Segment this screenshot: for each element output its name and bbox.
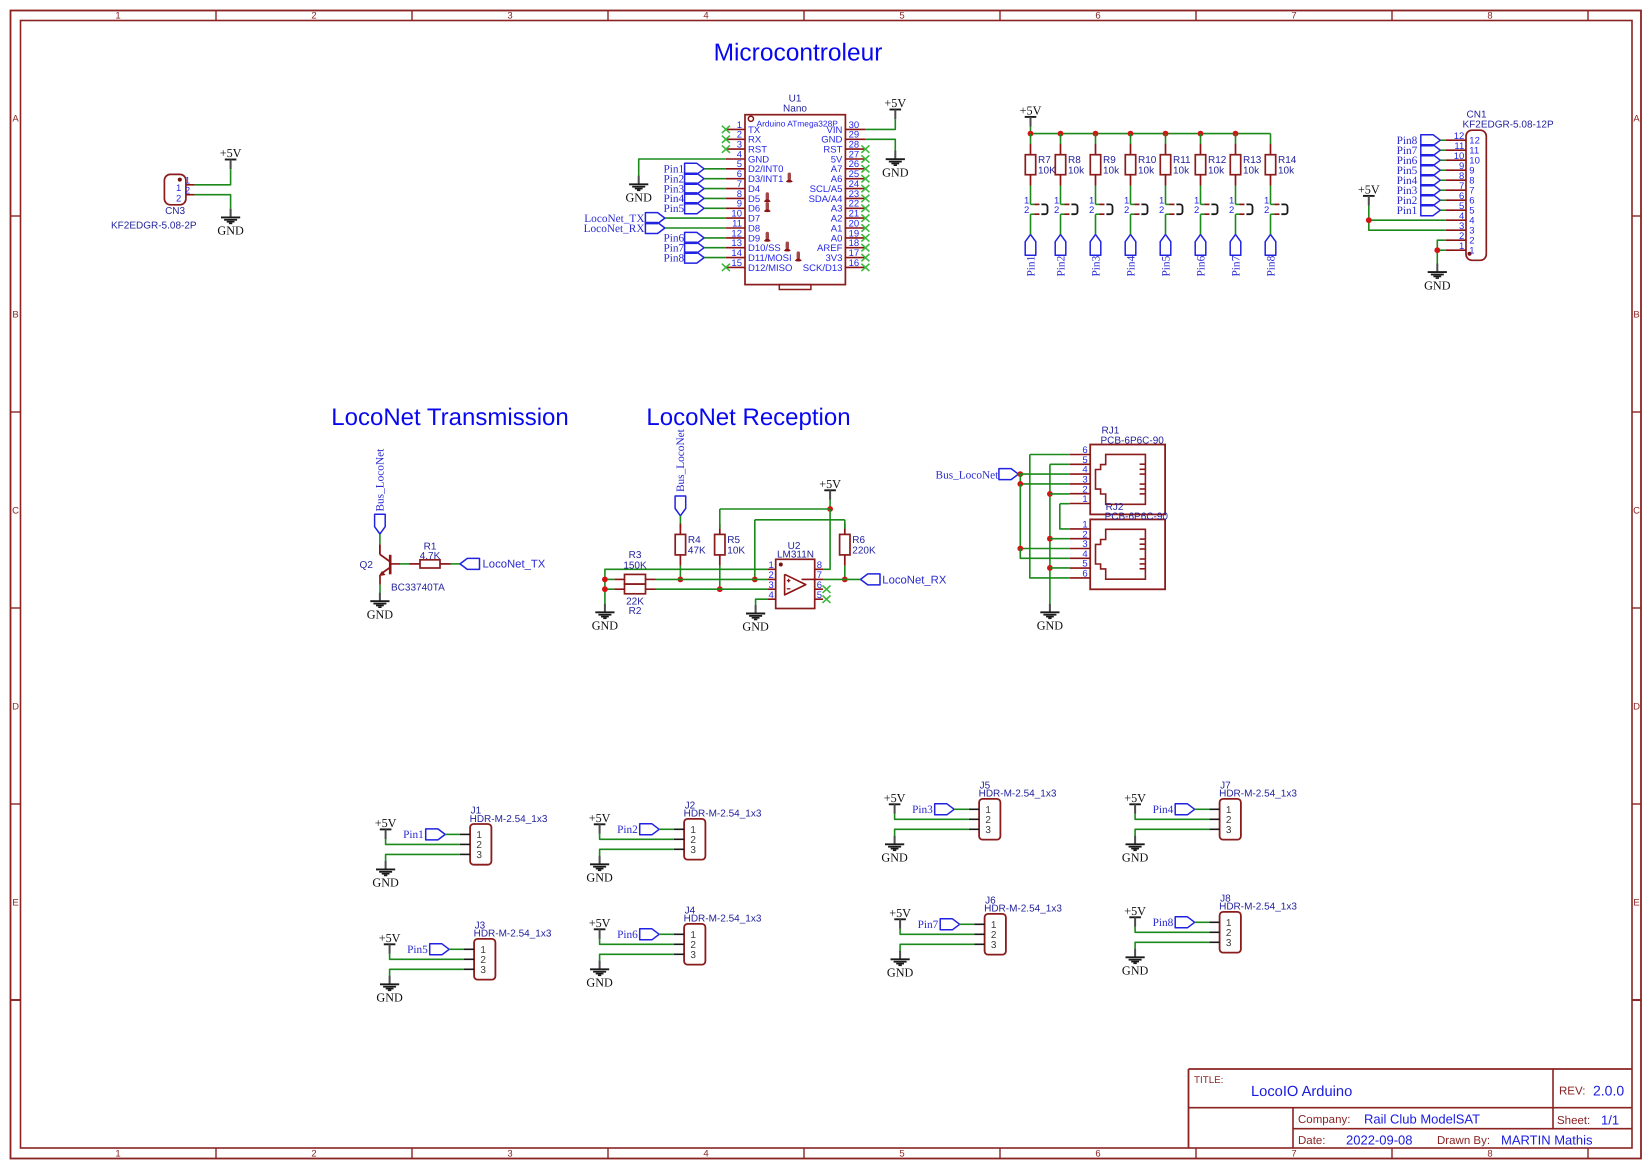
svg-text:HDR-M-2.54_1x3: HDR-M-2.54_1x3: [684, 809, 762, 820]
svg-text:+5V: +5V: [375, 816, 397, 830]
svg-text:6: 6: [1095, 10, 1100, 21]
svg-text:TITLE:: TITLE:: [1194, 1075, 1223, 1086]
svg-text:+5V: +5V: [1358, 182, 1380, 196]
svg-text:GND: GND: [592, 619, 619, 633]
svg-text:R8: R8: [1068, 155, 1081, 166]
svg-text:B: B: [12, 309, 18, 320]
svg-text:2: 2: [311, 10, 316, 21]
svg-text:2.0.0: 2.0.0: [1593, 1083, 1624, 1099]
svg-text:HDR-M-2.54_1x3: HDR-M-2.54_1x3: [1219, 789, 1297, 800]
svg-text:R11: R11: [1173, 155, 1191, 166]
svg-text:Pin3: Pin3: [912, 804, 933, 816]
svg-text:C: C: [1633, 505, 1640, 516]
svg-text:4.7K: 4.7K: [420, 551, 441, 562]
svg-text:PCB-6P6C-90: PCB-6P6C-90: [1101, 436, 1165, 447]
svg-text:10k: 10k: [1068, 166, 1085, 177]
svg-text:6: 6: [1082, 569, 1087, 580]
svg-text:LocoNet_RX: LocoNet_RX: [584, 223, 645, 235]
svg-text:10K: 10K: [1038, 166, 1056, 177]
svg-text:HDR-M-2.54_1x3: HDR-M-2.54_1x3: [984, 904, 1062, 915]
svg-text:GND: GND: [882, 165, 909, 179]
svg-text:R9: R9: [1103, 155, 1116, 166]
svg-text:GND: GND: [742, 620, 769, 634]
svg-text:2: 2: [1229, 205, 1234, 216]
svg-text:8: 8: [1487, 1148, 1492, 1159]
svg-text:D: D: [1633, 701, 1640, 712]
svg-text:LocoNet_RX: LocoNet_RX: [882, 574, 947, 586]
svg-text:GND: GND: [1424, 278, 1451, 292]
svg-text:REV:: REV:: [1559, 1086, 1585, 1098]
svg-text:Pin1: Pin1: [1025, 256, 1037, 277]
svg-text:6: 6: [1095, 1148, 1100, 1159]
svg-text:MARTIN Mathis: MARTIN Mathis: [1501, 1133, 1593, 1148]
svg-text:GND: GND: [376, 991, 403, 1005]
svg-text:2: 2: [1024, 205, 1029, 216]
svg-text:KF2EDGR-5.08-2P: KF2EDGR-5.08-2P: [111, 220, 197, 231]
svg-text:HDR-M-2.54_1x3: HDR-M-2.54_1x3: [1219, 902, 1297, 913]
svg-text:+5V: +5V: [379, 931, 401, 945]
svg-text:HDR-M-2.54_1x3: HDR-M-2.54_1x3: [979, 789, 1057, 800]
svg-text:LM311N: LM311N: [777, 549, 814, 560]
svg-text:+5V: +5V: [884, 791, 906, 805]
svg-text:Company:: Company:: [1298, 1114, 1350, 1126]
svg-text:Pin2: Pin2: [1055, 255, 1067, 276]
svg-text:15: 15: [731, 258, 742, 269]
svg-text:B: B: [1633, 309, 1639, 320]
svg-text:+5V: +5V: [1020, 103, 1042, 117]
svg-text:GND: GND: [887, 966, 914, 980]
svg-text:Bus_LocoNet: Bus_LocoNet: [675, 428, 687, 492]
svg-text:Pin6: Pin6: [1195, 255, 1207, 276]
svg-text:7: 7: [1291, 1148, 1296, 1159]
svg-text:GND: GND: [1122, 964, 1149, 978]
svg-text:R5: R5: [727, 535, 740, 546]
svg-text:R4: R4: [688, 535, 701, 546]
svg-text:Pin6: Pin6: [617, 929, 638, 941]
svg-text:+5V: +5V: [819, 477, 841, 491]
svg-text:R12: R12: [1208, 155, 1227, 166]
svg-text:GND: GND: [625, 191, 652, 205]
svg-text:PCB-6P6C-90: PCB-6P6C-90: [1105, 512, 1169, 523]
svg-text:Date:: Date:: [1298, 1135, 1326, 1147]
svg-text:R7: R7: [1038, 155, 1051, 166]
svg-text:1: 1: [115, 10, 120, 21]
svg-text:10k: 10k: [1173, 166, 1190, 177]
svg-text:BC33740TA: BC33740TA: [391, 582, 445, 593]
svg-text:Pin8: Pin8: [663, 252, 684, 264]
svg-text:E: E: [12, 897, 18, 908]
svg-text:R10: R10: [1138, 155, 1157, 166]
svg-text:1: 1: [1469, 246, 1474, 257]
svg-text:R13: R13: [1243, 155, 1262, 166]
svg-text:Pin1: Pin1: [403, 829, 424, 841]
svg-text:GND: GND: [372, 876, 399, 890]
svg-text:2: 2: [311, 1148, 316, 1159]
svg-text:+5V: +5V: [884, 96, 906, 110]
svg-text:HDR-M-2.54_1x3: HDR-M-2.54_1x3: [684, 914, 762, 925]
svg-text:Pin5: Pin5: [663, 203, 684, 215]
svg-text:3: 3: [507, 10, 512, 21]
svg-text:Pin5: Pin5: [407, 944, 428, 956]
svg-text:3: 3: [480, 965, 486, 976]
svg-text:+5V: +5V: [1124, 791, 1146, 805]
svg-text:2: 2: [1264, 205, 1269, 216]
svg-text:C: C: [12, 505, 19, 516]
svg-text:+5V: +5V: [889, 906, 911, 920]
svg-text:LocoNet Reception: LocoNet Reception: [646, 404, 850, 431]
svg-text:Pin1: Pin1: [1397, 205, 1418, 217]
svg-text:10K: 10K: [727, 546, 745, 557]
svg-text:3: 3: [507, 1148, 512, 1159]
svg-text:220K: 220K: [852, 546, 876, 557]
svg-text:GND: GND: [1037, 619, 1064, 633]
svg-text:Bus_LocoNet: Bus_LocoNet: [936, 469, 1000, 481]
svg-text:CN3: CN3: [165, 206, 185, 217]
svg-text:LocoNet_TX: LocoNet_TX: [483, 558, 546, 570]
svg-text:Pin5: Pin5: [1160, 255, 1172, 276]
svg-text:3: 3: [1226, 938, 1232, 949]
svg-text:Microcontroleur: Microcontroleur: [714, 40, 883, 67]
svg-text:E: E: [1633, 897, 1639, 908]
svg-text:R6: R6: [852, 535, 865, 546]
svg-text:8: 8: [1487, 10, 1492, 21]
svg-text:1: 1: [1082, 494, 1087, 505]
svg-text:10k: 10k: [1278, 166, 1295, 177]
svg-text:R14: R14: [1278, 155, 1297, 166]
svg-text:5: 5: [899, 1148, 904, 1159]
svg-text:GND: GND: [881, 851, 908, 865]
svg-text:D12/MISO: D12/MISO: [748, 263, 792, 274]
svg-text:16: 16: [849, 258, 860, 269]
svg-text:Pin2: Pin2: [617, 824, 638, 836]
svg-text:Pin3: Pin3: [1090, 255, 1102, 276]
svg-text:Pin7: Pin7: [918, 919, 939, 931]
svg-text:LocoIO Arduino: LocoIO Arduino: [1251, 1084, 1352, 1100]
svg-text:1/1: 1/1: [1601, 1113, 1619, 1128]
svg-text:+5V: +5V: [589, 916, 611, 930]
svg-text:5: 5: [899, 10, 904, 21]
svg-text:2022-09-08: 2022-09-08: [1346, 1133, 1413, 1148]
svg-text:A: A: [12, 113, 19, 124]
svg-text:47K: 47K: [688, 546, 706, 557]
svg-text:Pin8: Pin8: [1153, 917, 1174, 929]
svg-text:3: 3: [991, 940, 997, 951]
svg-text:+5V: +5V: [220, 146, 242, 160]
svg-text:3: 3: [476, 850, 482, 861]
svg-text:3: 3: [690, 950, 696, 961]
svg-text:HDR-M-2.54_1x3: HDR-M-2.54_1x3: [470, 814, 548, 825]
svg-text:1: 1: [1459, 241, 1464, 252]
svg-text:1: 1: [115, 1148, 120, 1159]
svg-text:Bus_LocoNet: Bus_LocoNet: [375, 448, 387, 512]
svg-text:SCK/D13: SCK/D13: [803, 263, 843, 274]
svg-text:2: 2: [1159, 205, 1164, 216]
svg-text:D: D: [12, 701, 19, 712]
svg-text:Pin8: Pin8: [1265, 255, 1277, 276]
svg-text:GND: GND: [217, 224, 244, 238]
svg-text:HDR-M-2.54_1x3: HDR-M-2.54_1x3: [474, 929, 552, 940]
svg-text:Pin7: Pin7: [1230, 255, 1242, 276]
svg-text:Pin4: Pin4: [1153, 804, 1174, 816]
svg-text:2: 2: [185, 185, 190, 196]
svg-text:10k: 10k: [1208, 166, 1225, 177]
svg-text:4: 4: [703, 1148, 708, 1159]
svg-text:R2: R2: [629, 606, 642, 617]
svg-text:Rail Club ModelSAT: Rail Club ModelSAT: [1364, 1112, 1480, 1127]
svg-text:LocoNet Transmission: LocoNet Transmission: [331, 404, 568, 431]
svg-text:3: 3: [690, 845, 696, 856]
svg-text:Nano: Nano: [783, 104, 807, 115]
svg-text:A: A: [1633, 113, 1640, 124]
svg-text:+5V: +5V: [1124, 904, 1146, 918]
svg-text:10k: 10k: [1243, 166, 1260, 177]
svg-text:+5V: +5V: [589, 811, 611, 825]
svg-text:3: 3: [1226, 825, 1232, 836]
svg-text:2: 2: [1124, 205, 1129, 216]
svg-text:2: 2: [176, 193, 181, 204]
svg-text:1: 1: [176, 183, 181, 194]
svg-text:KF2EDGR-5.08-12P: KF2EDGR-5.08-12P: [1463, 120, 1554, 131]
svg-text:2: 2: [1089, 205, 1094, 216]
svg-text:GND: GND: [1122, 851, 1149, 865]
svg-text:4: 4: [769, 590, 774, 601]
svg-text:GND: GND: [367, 607, 394, 621]
svg-text:7: 7: [1291, 10, 1296, 21]
svg-text:Pin4: Pin4: [1125, 255, 1137, 276]
svg-text:4: 4: [703, 10, 708, 21]
svg-text:Drawn By:: Drawn By:: [1437, 1135, 1490, 1147]
svg-text:2: 2: [1054, 205, 1059, 216]
svg-text:10k: 10k: [1103, 166, 1120, 177]
svg-text:Sheet:: Sheet:: [1557, 1115, 1590, 1127]
svg-text:GND: GND: [586, 871, 613, 885]
svg-text:5: 5: [817, 590, 822, 601]
svg-text:2: 2: [1194, 205, 1199, 216]
svg-text:3: 3: [985, 825, 991, 836]
svg-text:10k: 10k: [1138, 166, 1155, 177]
svg-text:Q2: Q2: [360, 560, 374, 571]
svg-text:GND: GND: [586, 976, 613, 990]
